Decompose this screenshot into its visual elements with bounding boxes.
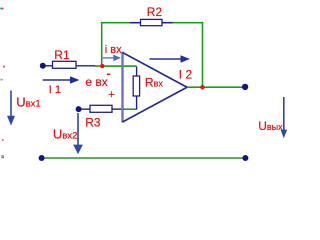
node bottom right terminal (242, 155, 248, 161)
wire Rвх top lead (136, 67, 138, 77)
node input 1 terminal (40, 63, 46, 69)
node input 2 terminal (76, 106, 82, 112)
wire R2 right lead (162, 22, 173, 24)
arrow Uвых (281, 97, 288, 138)
edge artifact speck left y80 (1, 79, 3, 81)
arrow Uвх2 (73, 113, 83, 154)
op-amp bottom edge (123, 87, 188, 122)
wire feedback loop (left vertical, top horizontal, right vertical) (102, 23, 203, 88)
arrow I 1 (43, 76, 80, 84)
svg-text:Uвх1: Uвх1 (16, 95, 40, 110)
svg-text:Uвх2: Uвх2 (53, 127, 77, 142)
resistor R3 (90, 105, 112, 112)
svg-text:i вх: i вх (105, 44, 122, 56)
resistor R1 (53, 61, 77, 68)
wire R3 left lead (81, 108, 91, 110)
edge artifact speck bottom left (1, 155, 4, 158)
wire Rвх bottom lead (136, 96, 138, 110)
node A inverting input junction (100, 64, 104, 68)
wire bottom rail (42, 157, 246, 159)
svg-text:e вх: e вх (85, 75, 107, 89)
wire inverting input row (95, 65, 137, 67)
node bottom left terminal (39, 155, 45, 161)
svg-text:I 1: I 1 (49, 84, 61, 96)
svg-text:Rвх: Rвх (145, 76, 163, 90)
edge artifact speck left y140 (2, 139, 4, 141)
edge artifact speck mid left (3, 66, 5, 68)
resistor R2 (141, 19, 163, 25)
wire non-inverting input row (123, 108, 137, 110)
arrow Uвх1 (7, 91, 15, 126)
arrow i вх (103, 55, 121, 62)
wire R1 right lead (76, 65, 95, 67)
svg-text:+: + (108, 89, 114, 101)
svg-text:R2: R2 (147, 5, 163, 19)
wire R2 left lead (130, 22, 141, 24)
node output terminal (242, 84, 248, 90)
node output junction (200, 85, 204, 89)
edge artifact speck top left (0, 8, 4, 10)
wire R1 left lead (45, 65, 53, 67)
svg-text:Uвых: Uвых (258, 119, 283, 133)
svg-text:R3: R3 (85, 115, 101, 129)
arrow I 2 (150, 55, 191, 63)
resistor Rвх (133, 76, 139, 96)
label minus sign (107, 74, 111, 75)
op-amp top edge (123, 53, 188, 88)
svg-text:I 2: I 2 (179, 68, 193, 82)
op-amp left edge (121, 52, 123, 123)
wire R3 right lead (112, 108, 124, 110)
wire output row (187, 86, 246, 88)
svg-text:R1: R1 (54, 48, 70, 62)
